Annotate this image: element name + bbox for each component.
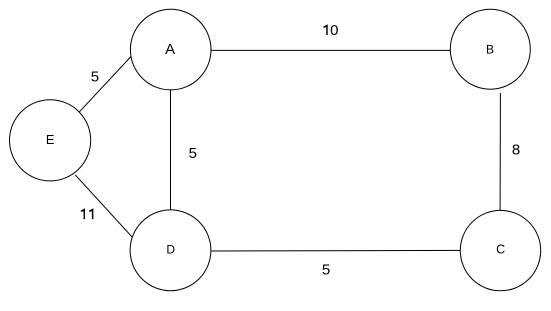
node A xyxy=(130,9,211,90)
wire edge D-C xyxy=(212,249,461,252)
node B xyxy=(450,9,530,89)
label 11 on edge E-D : two Arial-style footless 1s xyxy=(81,208,85,219)
node C xyxy=(460,210,540,290)
svg-text:C: C xyxy=(496,243,505,257)
node E xyxy=(10,100,91,181)
label 10 on edge A-B : digit 1 drawn as Arial-style footless path xyxy=(323,24,327,35)
svg-text:8: 8 xyxy=(512,141,520,158)
node D xyxy=(130,210,211,291)
svg-text:5: 5 xyxy=(322,262,330,279)
svg-text:0: 0 xyxy=(330,22,338,39)
svg-text:B: B xyxy=(486,43,494,57)
wire edge A-B xyxy=(211,49,451,51)
wire edge B-C xyxy=(499,93,501,211)
wire edge E-D xyxy=(75,175,133,238)
svg-text:E: E xyxy=(46,132,55,147)
svg-text:D: D xyxy=(166,243,175,257)
svg-text:5: 5 xyxy=(91,69,99,86)
wire edge A-D xyxy=(170,90,172,211)
svg-text:A: A xyxy=(165,41,175,58)
svg-text:5: 5 xyxy=(189,145,197,162)
wire edge A-E xyxy=(79,57,132,113)
